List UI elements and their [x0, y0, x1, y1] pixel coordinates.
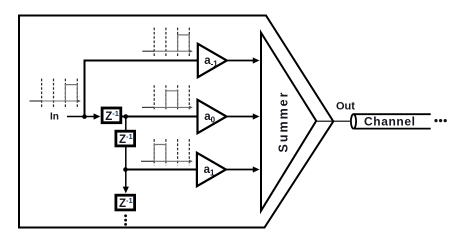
- svg-text:Summer: Summer: [276, 90, 290, 152]
- wire: amp a0 to summer with arrow: [227, 116, 255, 118]
- delay Z1: [102, 108, 121, 123]
- amp a-1: [198, 44, 227, 77]
- svg-text:Out: Out: [336, 101, 355, 113]
- waveform icon S3 (tap a1): [141, 139, 193, 165]
- wire: Z1 out to amp a0: [122, 116, 199, 118]
- delay Z2: [116, 131, 135, 146]
- transmitter block outline (pentagon): [19, 16, 333, 228]
- wire: branch up from node A: [84, 61, 86, 117]
- node B (after Z1): [124, 114, 129, 119]
- wire: node B down to Z2: [125, 117, 127, 131]
- channel cylinder body: [354, 113, 431, 115]
- wire: node A to Z1 with arrow: [85, 116, 96, 118]
- svg-text:Channel: Channel: [364, 115, 416, 129]
- wire: row1 to amp a-1: [84, 60, 199, 62]
- wire: summer out to channel: [316, 120, 351, 122]
- amp a1: [197, 153, 226, 186]
- amp a0: [198, 100, 227, 133]
- wire: Z2 down to node C: [125, 147, 127, 170]
- waveform icon S1 (tap a-1): [142, 28, 193, 58]
- wire: node C down to Z3 with arrow: [125, 170, 127, 189]
- ellipsis below Z3: [124, 214, 127, 217]
- summer U1 triangle: [261, 33, 316, 211]
- waveform icon S0 (at In): [30, 79, 81, 108]
- wire: amp a-1 to summer with arrow: [227, 60, 254, 62]
- channel cylinder left cap: [351, 114, 356, 128]
- node C (tap 3): [123, 167, 128, 172]
- ellipsis after channel: [434, 119, 437, 122]
- wire: node C to amp a1: [126, 169, 198, 171]
- svg-text:In: In: [50, 112, 59, 123]
- node A (input branch): [82, 114, 87, 119]
- waveform icon S2 (tap a0): [142, 85, 193, 111]
- wire: amp a1 to summer with arrow: [226, 169, 254, 171]
- delay Z3: [116, 195, 135, 210]
- wire: In stub: [67, 116, 85, 118]
